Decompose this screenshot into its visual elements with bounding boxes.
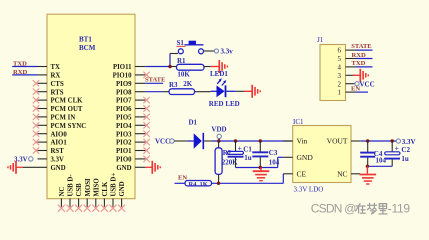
svg-text:GND: GND — [119, 181, 126, 196]
svg-text:2: 2 — [338, 80, 342, 88]
svg-text:PIO1: PIO1 — [116, 148, 132, 155]
svg-text:C3: C3 — [269, 149, 278, 157]
svg-text:USB D-: USB D- — [68, 174, 75, 197]
svg-text:PIO3: PIO3 — [116, 131, 132, 138]
svg-text:PIO0: PIO0 — [116, 157, 132, 164]
svg-text:PCM SYNC: PCM SYNC — [51, 123, 87, 130]
svg-text:GND: GND — [116, 165, 131, 172]
svg-text:CE: CE — [297, 170, 307, 179]
svg-text:IC1: IC1 — [293, 118, 304, 126]
svg-text:EN: EN — [351, 86, 360, 93]
svg-text:CSB: CSB — [76, 183, 83, 197]
svg-text:3.3V: 3.3V — [402, 138, 416, 146]
svg-text:5: 5 — [338, 55, 342, 63]
svg-text:3.3V: 3.3V — [51, 157, 64, 164]
svg-text:RX: RX — [51, 73, 61, 80]
svg-text:PIO7: PIO7 — [116, 98, 132, 105]
svg-text:PIO2: PIO2 — [116, 140, 132, 147]
svg-text:PCM OUT: PCM OUT — [51, 106, 83, 113]
svg-text:USB D+: USB D+ — [111, 173, 118, 197]
svg-text:3: 3 — [338, 72, 342, 80]
svg-text:CTS: CTS — [51, 81, 64, 88]
svg-text:GND: GND — [51, 165, 66, 172]
svg-text:MISO: MISO — [93, 178, 100, 196]
svg-text:AIO1: AIO1 — [51, 140, 68, 147]
svg-text:PIO9: PIO9 — [116, 81, 132, 88]
svg-text:AIO0: AIO0 — [51, 131, 68, 138]
svg-text:1K: 1K — [200, 181, 208, 188]
svg-text:PCM IN: PCM IN — [51, 115, 76, 122]
svg-text:STATE: STATE — [351, 43, 371, 50]
svg-text:R1: R1 — [177, 57, 186, 65]
svg-text:C2: C2 — [401, 146, 410, 154]
svg-text:NC: NC — [59, 187, 66, 197]
svg-text:VCC: VCC — [360, 81, 375, 89]
svg-text:R4: R4 — [189, 181, 198, 188]
svg-text:STATE: STATE — [145, 77, 165, 84]
svg-text:PIO4: PIO4 — [116, 123, 132, 130]
svg-text:PIO10: PIO10 — [113, 73, 132, 80]
svg-text:-119: -119 — [388, 201, 411, 215]
svg-text:VOUT: VOUT — [327, 137, 348, 146]
svg-text:R3: R3 — [169, 81, 178, 89]
svg-text:J1: J1 — [317, 36, 324, 44]
svg-text:+: + — [395, 143, 399, 152]
svg-text:TX: TX — [51, 64, 61, 71]
svg-text:CLK: CLK — [102, 181, 109, 196]
svg-text:1: 1 — [338, 89, 342, 97]
svg-text:CSDN @: CSDN @ — [311, 201, 356, 215]
svg-text:MOSI: MOSI — [85, 178, 92, 196]
svg-text:3.3v: 3.3v — [221, 48, 234, 56]
svg-text:RST: RST — [51, 148, 65, 155]
svg-text:PIO8: PIO8 — [116, 89, 132, 96]
svg-text:104: 104 — [376, 156, 387, 164]
svg-text:RXD: RXD — [352, 52, 367, 59]
svg-text:RTS: RTS — [51, 89, 64, 96]
svg-text:PIO6: PIO6 — [116, 106, 132, 113]
svg-text:RED LED: RED LED — [209, 100, 240, 108]
svg-text:LED1: LED1 — [210, 70, 228, 78]
svg-text:GND: GND — [297, 153, 314, 162]
svg-text:BT1: BT1 — [79, 35, 92, 43]
svg-text:D1: D1 — [189, 118, 198, 126]
svg-text:PIO11: PIO11 — [113, 64, 132, 71]
svg-text:10K: 10K — [177, 70, 190, 78]
svg-text:S1: S1 — [177, 39, 185, 47]
svg-text:VCC: VCC — [155, 137, 170, 145]
svg-text:1u: 1u — [401, 155, 409, 163]
svg-text:BCM: BCM — [79, 44, 96, 52]
svg-text:C1: C1 — [243, 146, 252, 154]
svg-text:TXD: TXD — [352, 60, 366, 67]
svg-text:4: 4 — [338, 64, 342, 72]
svg-text:PIO5: PIO5 — [116, 115, 132, 122]
svg-text:Vin: Vin — [297, 137, 308, 146]
svg-text:3.3V LDO: 3.3V LDO — [294, 186, 324, 194]
svg-text:VDD: VDD — [211, 125, 226, 133]
svg-text:NC: NC — [337, 170, 347, 179]
svg-text:6: 6 — [338, 47, 342, 55]
svg-text:+: + — [238, 144, 242, 153]
svg-text:PCM CLK: PCM CLK — [51, 98, 84, 105]
svg-text:2K: 2K — [183, 80, 193, 88]
svg-text:1u: 1u — [244, 154, 252, 162]
